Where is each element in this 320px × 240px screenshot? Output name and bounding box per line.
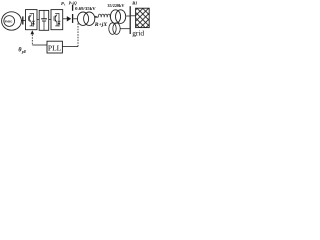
wire to PLL left — [32, 44, 47, 46]
wire bar to T1 — [73, 18, 78, 20]
svg-text:35/220kV: 35/220kV — [107, 3, 125, 8]
svg-text:t: t — [64, 3, 66, 7]
wire T1 to inductor — [95, 16, 98, 18]
wire bus to grid — [131, 15, 136, 17]
power flow arrow — [67, 16, 71, 21]
generator inner circle — [4, 16, 15, 27]
measurement bar upper segment — [72, 5, 74, 11]
transformer T1 — [77, 12, 94, 25]
ac wire GSC out — [63, 18, 67, 20]
wire generator to MSC — [21, 20, 25, 22]
GSC IGBT symbol — [54, 13, 61, 27]
PLL gate arrow into MSC — [31, 30, 35, 34]
dc wire cap to GSC — [49, 19, 51, 21]
wire T3 to bus — [120, 28, 130, 30]
grid box — [136, 8, 150, 27]
small flow arrowhead — [95, 16, 97, 18]
PCC measurement dashed line — [77, 21, 79, 46]
svg-text:B1: B1 — [131, 0, 137, 5]
PLL box — [47, 41, 62, 53]
theta signal dashed line — [31, 35, 33, 45]
MSC IGBT symbol — [28, 13, 35, 27]
svg-text:pll: pll — [21, 50, 26, 54]
PLL input wire — [62, 46, 78, 48]
generator measurement bar — [22, 16, 24, 24]
svg-text:PLL: PLL — [48, 43, 62, 52]
dc-link capacitor symbol — [41, 10, 47, 30]
dc-link capacitor box — [39, 10, 49, 30]
machine-side converter box — [26, 10, 38, 30]
measurement bar — [72, 14, 74, 23]
transformer T2 — [110, 10, 125, 24]
grid-side converter box — [51, 10, 63, 30]
wire T2 to bus — [126, 15, 130, 17]
svg-text:0.69/35kV: 0.69/35kV — [75, 6, 96, 11]
svg-text:R+jX: R+jX — [95, 23, 108, 28]
generator outer circle — [2, 12, 22, 30]
svg-text:grid: grid — [132, 28, 144, 37]
inductor L — [98, 14, 110, 17]
svg-text:PMSG: PMSG — [5, 19, 13, 23]
dc wire MSC to cap — [37, 19, 39, 21]
transformer T3 — [109, 23, 120, 35]
bus B1 bar — [129, 6, 131, 34]
